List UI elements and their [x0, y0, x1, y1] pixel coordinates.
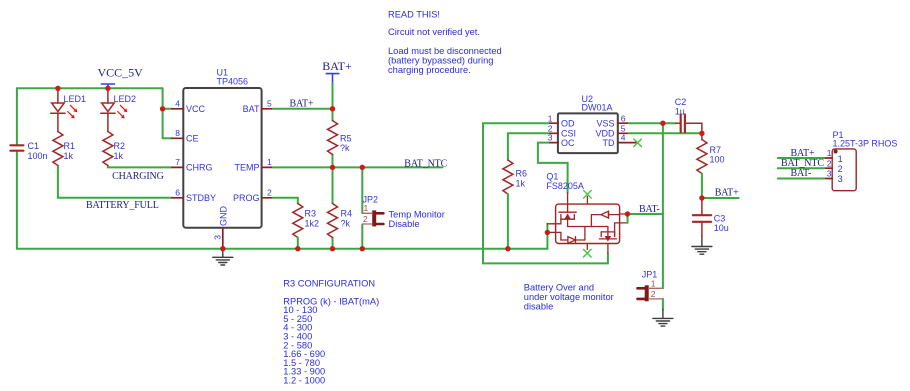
wire VSS row: [629, 122, 676, 124]
svg-text:VCC_5V: VCC_5V: [98, 66, 144, 80]
resistor R2: [103, 132, 113, 166]
U1 pin 4 VCC: [172, 108, 183, 110]
wire R4 leads: [332, 167, 334, 248]
svg-text:6: 6: [175, 187, 180, 197]
svg-text:PROG: PROG: [233, 193, 260, 203]
svg-text:1: 1: [827, 148, 832, 158]
svg-text:under voltage monitor: under voltage monitor: [524, 292, 614, 302]
wire P1 BAT+: [778, 157, 824, 159]
wire R5 leads: [332, 109, 334, 168]
svg-text:BAT+: BAT+: [322, 59, 352, 73]
junction node LED2/VCC: [105, 86, 110, 91]
wire Q1 right lower pin up: [627, 214, 629, 223]
svg-text:BAT+: BAT+: [290, 99, 314, 110]
resistor R4: [328, 204, 338, 238]
wire P1 BAT_NTC: [778, 167, 824, 169]
svg-text:10u: 10u: [714, 223, 729, 233]
svg-text:R1: R1: [64, 141, 76, 151]
U1 pin 1 TEMP: [262, 166, 273, 168]
svg-text:LED1: LED1: [64, 94, 87, 104]
Q1 upper-right diode: [591, 215, 601, 227]
MID-END: [483, 94, 897, 326]
P1 pin 3: [824, 178, 832, 180]
svg-text:R7: R7: [710, 145, 722, 155]
svg-text:OD: OD: [561, 118, 575, 128]
U1 pin 3 GND: [222, 228, 224, 249]
wire CSI to R6: [508, 133, 548, 160]
svg-text:DW01A: DW01A: [582, 103, 613, 113]
ground under JP1: [662, 310, 664, 319]
ground under C3: [701, 236, 703, 246]
wire VDD row: [629, 132, 702, 134]
svg-text:1k: 1k: [64, 151, 74, 161]
wire bottom GND bus: [17, 248, 548, 250]
svg-text:C3: C3: [714, 213, 726, 223]
svg-text:FS8205A: FS8205A: [546, 181, 584, 191]
Q1 left pins inside: [556, 219, 561, 224]
wire top bus VCC_5V: [17, 87, 163, 89]
svg-text:R3 CONFIGURATION: R3 CONFIGURATION: [283, 279, 375, 289]
svg-text:2: 2: [827, 158, 832, 168]
svg-text:BAT+: BAT+: [715, 188, 739, 199]
Q1 side pins: [547, 224, 555, 233]
wire BAT+ flag to node: [332, 84, 334, 109]
svg-text:VSS: VSS: [596, 118, 614, 128]
svg-text:CHARGING: CHARGING: [112, 171, 164, 182]
wire VCC corner to U1: [163, 88, 172, 138]
wire bus up to Q1 left pins: [546, 224, 548, 249]
svg-text:Temp Monitor: Temp Monitor: [389, 209, 445, 219]
svg-text:BAT: BAT: [243, 104, 260, 114]
wire VSS down to BAT-: [662, 123, 664, 214]
svg-text:GND: GND: [218, 206, 228, 227]
wire R2 to CHRG: [108, 166, 172, 167]
svg-text:2: 2: [363, 214, 368, 224]
svg-text:1: 1: [548, 113, 553, 123]
svg-text:TD: TD: [603, 138, 615, 148]
Q1 lower-left diode: [561, 239, 568, 241]
svg-text:7: 7: [175, 157, 180, 167]
svg-text:C2: C2: [675, 97, 687, 107]
wire BAT- node: [628, 213, 663, 215]
Q1 left FET: [559, 211, 576, 213]
svg-text:BATTERY_FULL: BATTERY_FULL: [86, 200, 159, 211]
capacitor C2: [676, 123, 702, 133]
wire R3 bottom: [297, 238, 299, 249]
svg-text:CE: CE: [186, 133, 199, 143]
svg-text:1k2: 1k2: [305, 218, 320, 228]
resistor R5: [328, 121, 338, 155]
junction node JP2/TEMP: [360, 165, 365, 170]
wire TEMP row BAT_NTC: [273, 166, 443, 168]
junction node VCC pin: [160, 106, 165, 111]
U1 pin 8 CE: [172, 137, 183, 139]
LEFT-END: [273, 59, 448, 251]
resistor R3: [293, 204, 303, 238]
junction node LED1 top: [55, 86, 60, 91]
svg-text:3: 3: [213, 235, 223, 240]
U1 pin 7 CHRG: [172, 166, 183, 168]
svg-text:100n: 100n: [28, 151, 48, 161]
P1 pin 1: [824, 157, 832, 159]
junction node R5/R4/TEMP: [330, 165, 335, 170]
IC U2 DW01A box: [558, 113, 618, 153]
svg-text:BAT-: BAT-: [791, 168, 812, 179]
junction node BAT+ / R5: [330, 106, 335, 111]
svg-text:VCC: VCC: [186, 104, 206, 114]
junction node R3 bottom: [295, 246, 300, 251]
wire OD net: [483, 123, 608, 263]
U2 pin 5 VDD: [618, 132, 629, 134]
wire JP2 column upper: [361, 167, 363, 213]
svg-text:1: 1: [267, 157, 272, 167]
wire P1 BAT-: [778, 178, 824, 180]
svg-text:6: 6: [621, 113, 626, 123]
svg-text:4: 4: [621, 133, 626, 143]
svg-text:?k: ?k: [341, 218, 351, 228]
Q1 NC stubs: [586, 197, 588, 205]
svg-text:TEMP: TEMP: [234, 162, 259, 172]
svg-text:1u: 1u: [675, 107, 685, 117]
svg-text:Disable: Disable: [389, 219, 420, 229]
svg-text:Load must be disconnected: Load must be disconnected: [388, 46, 502, 56]
Q1 top pin to gate: [567, 193, 569, 212]
junction node U1 GND: [220, 246, 225, 251]
Q1 no-connect X bottom: [584, 249, 592, 257]
svg-text:C1: C1: [28, 141, 40, 151]
resistor R6: [503, 160, 513, 194]
svg-text:Battery Over and: Battery Over and: [524, 282, 594, 292]
svg-text:BAT-: BAT-: [639, 204, 660, 215]
svg-text:Circuit not verified yet.: Circuit not verified yet.: [388, 27, 480, 37]
svg-text:8: 8: [175, 128, 180, 138]
U1 pin 2 PROG: [262, 197, 273, 199]
wire R7 bottom: [701, 174, 703, 199]
svg-text:2: 2: [651, 289, 656, 299]
junction node JP2 bottom: [360, 246, 365, 251]
Q1 right FET: [607, 227, 609, 232]
resistor R7: [701, 133, 703, 139]
svg-text:R3: R3: [305, 209, 317, 219]
U2 pin 1 OD: [548, 122, 558, 124]
svg-text:1: 1: [364, 203, 369, 213]
svg-text:2: 2: [267, 187, 272, 197]
svg-text:STDBY: STDBY: [186, 193, 216, 203]
svg-text:charging procedure.: charging procedure.: [388, 65, 471, 75]
svg-text:TP4056: TP4056: [217, 76, 249, 86]
svg-text:2: 2: [838, 164, 843, 174]
power flag VCC_5V: [101, 84, 114, 88]
svg-text:?k: ?k: [340, 143, 350, 153]
svg-text:CHRG: CHRG: [186, 162, 213, 172]
wire JP2 column lower: [361, 224, 363, 248]
svg-text:4: 4: [175, 98, 180, 108]
capacitor C3: [701, 198, 703, 236]
junction node R6 bottom: [505, 246, 510, 251]
svg-text:1: 1: [651, 279, 656, 289]
svg-text:5: 5: [267, 98, 272, 108]
junction node C2/VDD/R7: [699, 131, 704, 136]
svg-text:R6: R6: [516, 169, 528, 179]
svg-text:READ THIS!: READ THIS!: [388, 10, 440, 20]
svg-text:1: 1: [838, 154, 843, 164]
svg-text:(battery bypassed) during: (battery bypassed) during: [388, 56, 493, 66]
svg-text:BAT_NTC: BAT_NTC: [404, 158, 447, 169]
resistor R1: [53, 132, 63, 166]
svg-text:3: 3: [838, 174, 843, 184]
LED1: [51, 88, 65, 131]
U2 pin 2 CSI: [548, 132, 558, 134]
svg-text:R4: R4: [341, 209, 353, 219]
Q1 bottom pin: [607, 244, 609, 254]
LED2: [101, 88, 115, 131]
U1 pin 6 STDBY: [172, 197, 183, 199]
svg-text:R2: R2: [114, 141, 126, 151]
svg-text:1k: 1k: [516, 178, 526, 188]
wire PROG to R3: [273, 198, 298, 204]
wire OC to Q1 gate: [538, 143, 568, 193]
P1 pin 2: [824, 167, 832, 169]
power flag BAT+: [326, 74, 339, 84]
svg-text:1k: 1k: [114, 151, 124, 161]
junction node VSS/C2: [660, 121, 665, 126]
wire JP1 pin2 down: [662, 299, 664, 310]
svg-text:1.2 - 1000: 1.2 - 1000: [283, 376, 325, 386]
junction node R4 bottom: [330, 246, 335, 251]
U1 pin 5 BAT: [262, 108, 273, 110]
op-amp U1 TP4056 box: [183, 88, 261, 228]
wire BAT pin to BAT+ node: [273, 108, 333, 110]
svg-text:disable: disable: [524, 302, 553, 312]
U2 pin 6 VSS: [618, 122, 629, 124]
svg-text:1.25T-3P RHOS: 1.25T-3P RHOS: [833, 139, 898, 149]
wire R1 to STDBY: [58, 166, 172, 198]
junction node BAT-: [625, 211, 630, 216]
wire left rail lower: [16, 151, 18, 249]
svg-text:3: 3: [827, 169, 832, 179]
junction node Q1 left pin: [545, 230, 550, 235]
wire BAT- down to JP1: [662, 214, 664, 288]
junction node R7/C3/BAT+: [699, 195, 704, 200]
wire left rail upper: [16, 88, 18, 145]
svg-text:LED2: LED2: [114, 94, 137, 104]
wire BAT+ stub right: [702, 197, 739, 199]
ground under U1: [222, 249, 224, 258]
svg-text:OC: OC: [561, 138, 575, 148]
U2 pin 4 TD no-connect: [618, 142, 638, 144]
Q1 no-connect X top: [584, 191, 592, 199]
svg-text:100: 100: [710, 155, 725, 165]
capacitor C1: [10, 145, 23, 150]
wire R6 bottom: [507, 194, 509, 249]
U2 pin 3 OC: [548, 142, 558, 144]
Q1 mid rail: [568, 226, 608, 228]
